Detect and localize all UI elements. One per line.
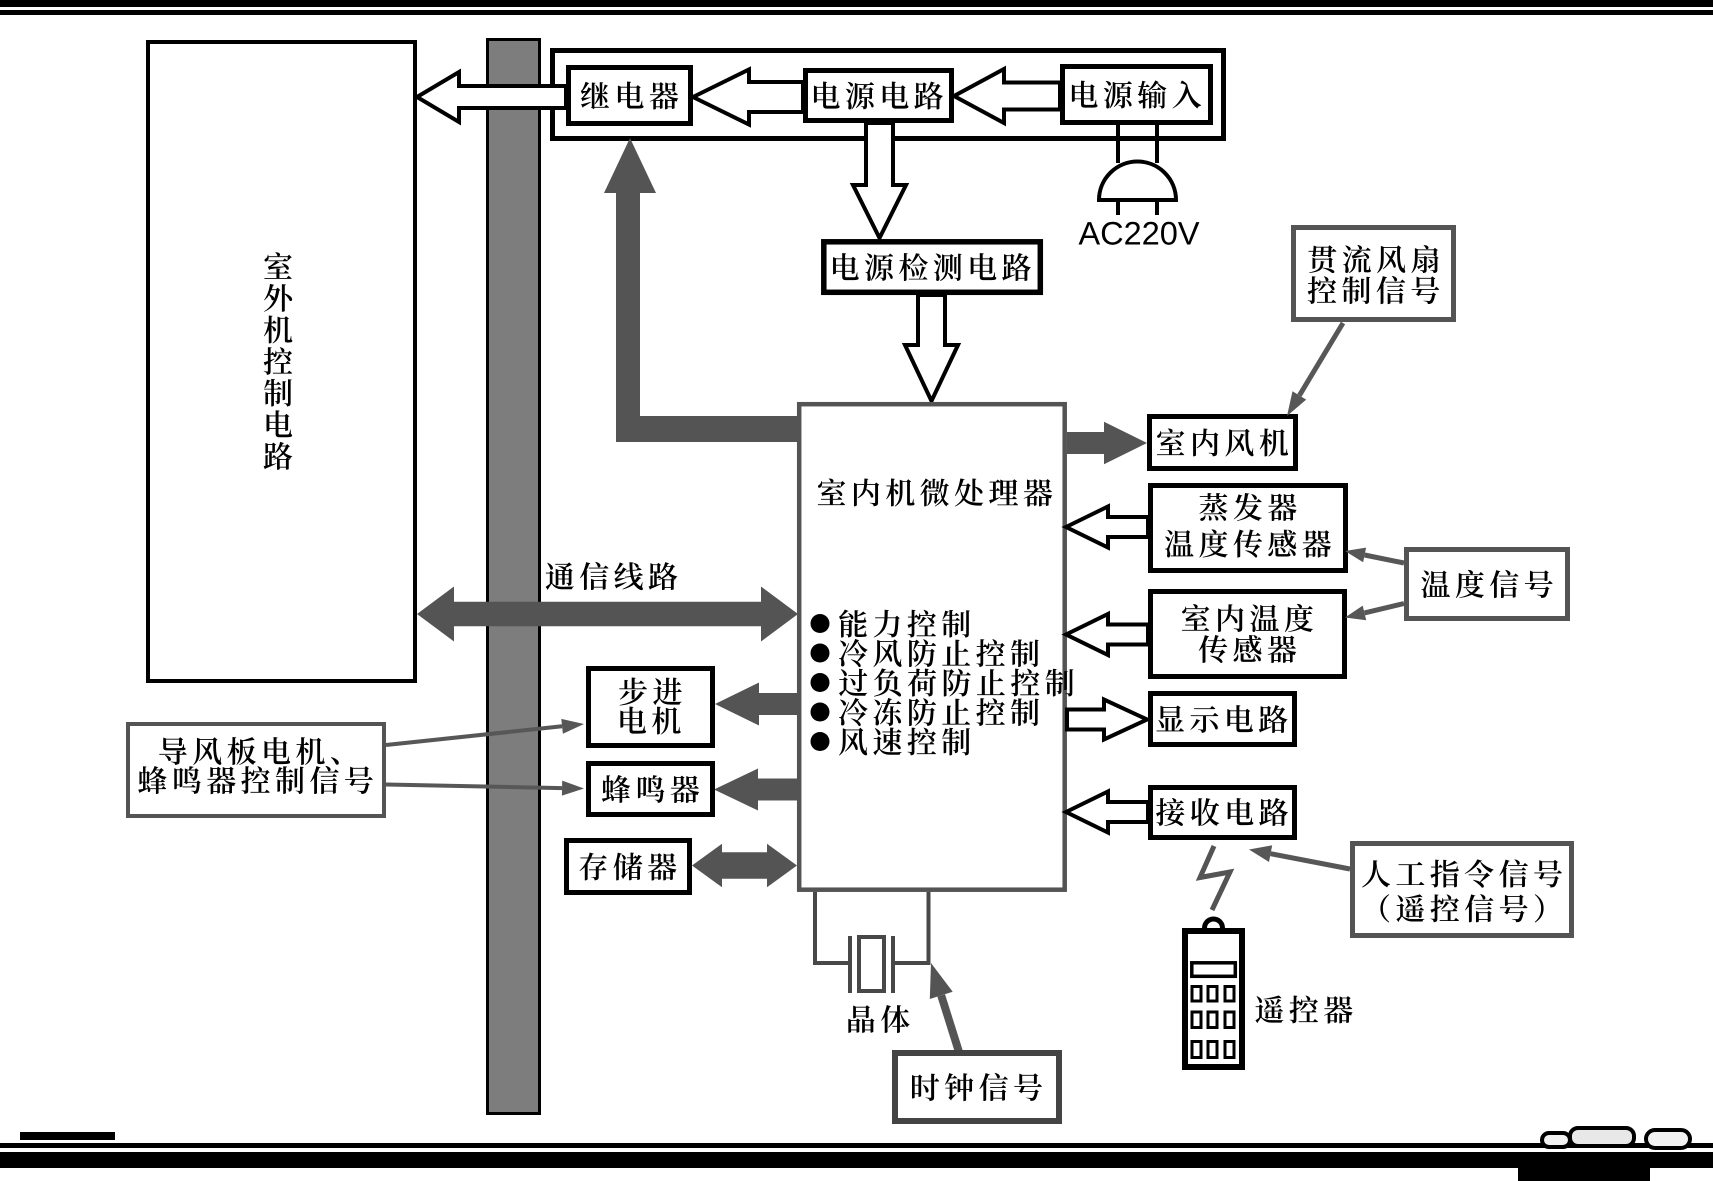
label 电源电路 [814,82,943,110]
label 导风板电机、 [159,737,339,765]
label 时钟信号 [912,1073,1042,1101]
box stepper motor (步进电机) [589,669,713,746]
block arrow power-input to power-circuit [954,69,1060,123]
block arrow power-circuit down to detector [853,123,906,238]
bus arrow MCU to relay (up), elbow [616,416,797,442]
bottom border bar (thick) [0,1152,1713,1168]
crystal body [859,937,884,991]
label 步进 [619,678,682,706]
bus arrow MCU-memory (double head) [692,844,797,887]
remote button r2c3 [1225,1012,1234,1028]
arrow temp-signal to room sensor [1365,604,1405,613]
block arrow MCU to display [1067,700,1147,740]
label 晶体 [848,1005,909,1033]
power section outer box [553,51,1224,139]
box manual command signal (人工指令信号) [1353,844,1572,936]
remote button r3c3 [1225,1042,1234,1058]
bottom-left tick mark [20,1132,115,1140]
wall partition bar (indoor/outdoor) [488,40,540,1114]
block arrow detector down to MCU [905,295,958,401]
box clock signal (时钟信号) [895,1053,1059,1121]
box power detection circuit (电源检测电路) [824,242,1041,292]
label 继电器 [581,81,678,109]
crystal plate left [848,936,852,993]
wire crystal bottom left [813,961,850,965]
label 风速控制 [839,727,970,755]
label AC220V [1079,222,1200,245]
remote button r3c1 [1192,1042,1201,1058]
block arrow evaporator-sensor to MCU [1066,507,1148,548]
label 显示电路 [1156,705,1287,733]
wire plug lead right [1155,125,1159,163]
label 温度信号 [1421,570,1552,598]
block arrow relay to outdoor box [417,72,566,122]
bottom-right block [1518,1166,1650,1181]
box display circuit (显示电路) [1151,694,1295,745]
plug prong left [1116,200,1120,215]
label 温度传感器 [1165,529,1331,557]
box power circuit (电源电路) [806,71,952,121]
wire crystal right drop [927,892,931,963]
bullet 过负荷防止控制 [811,673,830,692]
label 存储器 [580,852,677,880]
arrow fan-signal to indoor fan [1299,323,1343,395]
label 电源检测电路 [833,253,1031,281]
box evaporator temp sensor (蒸发器温度传感器) [1151,486,1346,571]
box cross-flow fan control signal (贯流风扇控制信号) [1294,228,1454,320]
arrow clock-signal to crystal [941,995,959,1052]
bus arrow communication line (double head) [417,587,798,642]
label （遥控信号） [1380,894,1543,922]
bullet 风速控制 [811,732,830,751]
box receiver circuit (接收电路) [1151,788,1295,838]
remote button r1c2 [1208,987,1217,1002]
lightning IR beam [1200,846,1230,910]
arrow command-signal to receiver [1271,854,1350,869]
wire crystal bottom right [893,961,931,965]
remote control hang loop [1205,919,1223,928]
wire plug lead left [1116,125,1120,163]
box power input (电源输入) [1063,67,1211,123]
label 蒸发器 [1199,493,1296,521]
label 传感器 [1199,635,1296,663]
label 室外机控制电路 (vertical) [264,252,293,469]
scan artifact blob 3 [1646,1130,1690,1148]
box buzzer (蜂鸣器) [589,764,713,815]
label 室内机微处理器 [818,478,1052,506]
bus arrow MCU to relay (up), shaft+head [604,138,656,442]
bottom rule (thin) [0,1143,1713,1148]
label 遥控器 [1255,995,1352,1023]
remote control body [1185,931,1242,1067]
bullet 冷风防止控制 [811,644,830,663]
label 贯流风扇 [1308,245,1438,273]
bullet 能力控制 [811,614,830,633]
label 电源输入 [1072,80,1201,108]
label 室内风机 [1157,429,1288,457]
top border rule (thin) [0,10,1713,15]
box louver/buzzer control signal (导风板电机、蜂鸣器控制信号) [128,724,384,816]
bullet 冷冻防止控制 [811,703,830,722]
bus arrow MCU to indoor fan [1067,422,1147,464]
label 冷风防止控制 [839,639,1039,667]
label 控制信号 [1308,276,1439,304]
label 蜂鸣器 [602,775,699,803]
arrow signal to stepper motor [386,726,562,745]
remote button r3c2 [1208,1042,1217,1058]
label 能力控制 [839,609,970,637]
arrow temp-signal to evaporator sensor [1365,555,1404,563]
box outdoor-unit control circuit (室外机控制电路) [148,42,415,681]
label 电机 [620,707,680,735]
box room temp sensor (室内温度传感器) [1151,592,1345,677]
wire crystal left drop [813,892,817,963]
remote button r1c3 [1225,987,1234,1002]
box indoor MCU (室内机微处理器) [799,404,1064,890]
plug body (dome) [1099,162,1176,201]
bus arrow MCU to stepper motor [715,683,797,726]
crystal plate right [891,936,895,993]
label 过负荷防止控制 [839,668,1073,696]
block arrow receiver to MCU [1066,792,1148,833]
scan artifact blob 1 [1542,1133,1570,1147]
label 人工指令信号 [1362,859,1562,887]
label 室内温度 [1182,604,1313,632]
label 接收电路 [1156,798,1288,826]
box indoor fan (室内风机) [1150,417,1296,469]
label 冷冻防止控制 [839,698,1039,726]
box temperature signal (温度信号) [1407,550,1568,619]
label 蜂鸣器控制信号 [138,766,373,794]
remote button r2c1 [1192,1012,1201,1028]
label 通信线路 [546,562,678,590]
plug prong right [1155,200,1159,215]
remote button r2c2 [1208,1012,1217,1028]
remote control display [1192,963,1236,977]
top border bar (thick) [0,0,1713,7]
scan artifact blob 2 [1570,1128,1634,1146]
bus arrow MCU to buzzer [714,769,797,811]
block arrow room-sensor to MCU [1066,614,1148,655]
block arrow power-circuit to relay [693,70,803,125]
remote button r1c1 [1192,987,1201,1002]
box relay (继电器) [569,68,691,124]
arrow signal to buzzer [386,785,562,789]
box memory (存储器) [567,841,690,893]
